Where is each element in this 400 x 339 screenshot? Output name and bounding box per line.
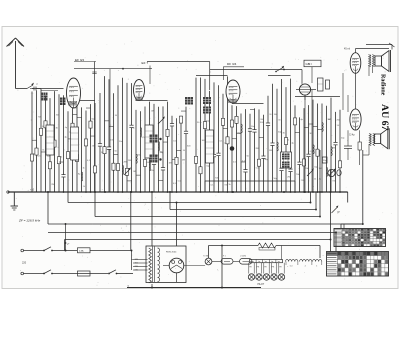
wire output stage (328, 98, 335, 192)
label DF 3/4 (223, 62, 244, 80)
wire IF stage a (159, 107, 164, 192)
svg-text:4: 4 (305, 266, 306, 268)
wire AF stage (274, 89, 283, 192)
svg-text:1M: 1M (151, 110, 154, 112)
lamp scale (203, 255, 212, 265)
svg-text:25k: 25k (301, 180, 304, 182)
wire IF stage b (170, 116, 177, 193)
output transformer T2 (369, 55, 375, 67)
wire riser (176, 203, 178, 247)
wire RF input stage (30, 92, 37, 192)
wire RF input stage (56, 94, 63, 192)
wire IF stage a (163, 102, 172, 193)
wire line 6 (65, 170, 331, 252)
IFT winding (150, 135, 158, 143)
wire riser (130, 192, 132, 251)
wire IF stage a (151, 104, 159, 192)
wire osc feeder (109, 69, 111, 192)
fuse holder (221, 256, 233, 265)
svg-text:5k: 5k (42, 150, 44, 152)
scan speckle texture (16, 40, 392, 286)
wire IF stage c (216, 85, 223, 193)
wire antenna feed (16, 83, 35, 89)
svg-text:2M: 2M (51, 184, 54, 186)
heater winding 5V (313, 260, 322, 268)
svg-text:F 1: F 1 (223, 256, 226, 258)
wire speaker2 stub (363, 145, 369, 156)
wire RF input stage (59, 95, 68, 193)
svg-text:1M: 1M (169, 163, 172, 165)
wire IF stage a (143, 107, 150, 192)
wire AF stage (266, 96, 272, 192)
wire mixer stage (68, 106, 78, 192)
wire osc stage (105, 79, 114, 192)
table tube data (327, 252, 389, 277)
wire output stage (304, 105, 313, 193)
IFT winding (203, 107, 211, 114)
wire lamp row (184, 261, 252, 265)
svg-text:45 ml: 45 ml (344, 48, 350, 51)
svg-text:2M: 2M (287, 177, 290, 179)
resistor out (358, 130, 361, 165)
potentiometer volume (328, 168, 341, 176)
svg-text:2M: 2M (182, 159, 185, 161)
wire IF stage a (136, 111, 145, 193)
IFT winding (282, 154, 290, 160)
wire stage top rail (68, 100, 95, 102)
IFT winding (150, 155, 158, 163)
magic eye V4 (299, 84, 310, 100)
wire det stage (259, 115, 269, 192)
table voltages (334, 229, 386, 247)
fuse F2 (78, 271, 91, 276)
svg-text:1M: 1M (133, 171, 136, 173)
svg-text:1k: 1k (83, 186, 85, 188)
heater winding 4V (300, 260, 312, 268)
svg-text:EF 7: EF 7 (142, 61, 149, 65)
label EF 7 and IF box (142, 61, 210, 90)
IFT winding (185, 97, 193, 105)
wire mixer stage (73, 105, 82, 192)
wire osc stage (103, 76, 106, 192)
rectifier tube V7 (163, 258, 184, 282)
wire riser (221, 246, 223, 288)
svg-text:220: 220 (22, 262, 27, 265)
speaker SP2 (375, 128, 390, 149)
wire output stage (301, 108, 310, 193)
wire mixer stage (77, 107, 86, 192)
svg-text:4μ: 4μ (319, 179, 321, 181)
wire det stage (241, 109, 250, 192)
switch S1 (43, 247, 53, 252)
IFT winding (282, 162, 290, 168)
heater winding 6.3V (286, 260, 298, 268)
wire output stage (332, 112, 341, 192)
wire AF stage (284, 87, 290, 192)
wire riser (65, 224, 71, 251)
wire speaker1 down (369, 66, 373, 76)
resistor grid (326, 80, 330, 89)
wire RF input stage (46, 98, 55, 192)
svg-text:70k: 70k (332, 181, 335, 183)
dial lamps (248, 246, 284, 281)
wire ground bus (7, 188, 348, 193)
switch S3 (108, 270, 117, 275)
wire IF stage c (194, 78, 200, 192)
wire mains line A (21, 249, 131, 252)
wire det stage (232, 106, 242, 192)
wire output stage (337, 110, 346, 193)
wire eye column (305, 90, 312, 192)
RF coil winding (60, 98, 66, 106)
coil grid choke (318, 78, 324, 91)
svg-text:DF 3/4: DF 3/4 (227, 62, 237, 66)
svg-text:→ +10: → +10 (27, 188, 35, 191)
cathode smudge V2 (135, 97, 143, 101)
wire osc stage (122, 78, 127, 193)
wire output stage (295, 117, 304, 192)
wire mains line B (21, 272, 133, 275)
wire output top (356, 43, 395, 53)
fuse holder (240, 256, 253, 265)
wire IF stage a (159, 106, 166, 192)
wire top mid feeders (210, 67, 312, 84)
ground (11, 192, 19, 210)
svg-text:2M: 2M (124, 161, 127, 163)
speaker SP1 (375, 50, 391, 72)
wire bottom bus (127, 284, 261, 288)
wire stage top rail (136, 100, 168, 102)
junction (159, 138, 161, 140)
fuse F1 (78, 248, 91, 253)
output transformer T3 (369, 134, 375, 146)
wire V5-V6 link (343, 73, 356, 112)
wire RF input stage (41, 96, 51, 192)
cathode smudge V1 (68, 101, 77, 106)
wire output stage (309, 100, 318, 193)
wire osc stage (109, 93, 118, 192)
wire RF input stage (32, 90, 41, 192)
resistor mains dropper (258, 243, 276, 250)
svg-text:1M: 1M (269, 150, 272, 152)
resistor screen (322, 157, 327, 163)
wire HT line 4 (48, 150, 363, 229)
wire riser (151, 192, 153, 246)
trimmer arrow (307, 168, 314, 176)
wire IF stage c (221, 94, 228, 192)
wire osc stage (98, 93, 106, 192)
wire AVC line 2 (170, 192, 316, 210)
IFT winding (203, 97, 211, 104)
wire mixer stage (91, 103, 97, 193)
wire output stage (313, 104, 323, 193)
wire RF input stage (51, 91, 58, 192)
junction (65, 250, 67, 252)
wire riser (319, 150, 321, 217)
wire AF stage (278, 79, 285, 192)
wire IF stage b (181, 107, 191, 192)
junction (159, 158, 161, 160)
svg-text:70k: 70k (38, 116, 41, 118)
wire det stage (230, 105, 236, 193)
wire stage top rail (268, 75, 291, 77)
wire output stage (327, 106, 331, 192)
wire antenna rail (36, 84, 58, 91)
svg-text:ZF = 128,5 kHz: ZF = 128,5 kHz (18, 219, 41, 223)
capacitor antenna coupling (30, 87, 41, 91)
svg-text:2M: 2M (256, 148, 259, 150)
wire tap feed (132, 251, 134, 271)
antenna coil winding (42, 93, 48, 101)
svg-text:2M: 2M (92, 146, 95, 148)
trimmer arrow (124, 167, 131, 175)
wire IF stage a (145, 102, 155, 192)
magic eye wire (296, 89, 316, 91)
tube V1 EF (67, 78, 81, 108)
svg-text:EF 3/4: EF 3/4 (75, 58, 84, 62)
svg-text:2M: 2M (128, 160, 131, 162)
svg-text:6,3: 6,3 (290, 266, 293, 268)
wire osc stage (127, 83, 136, 193)
capacitor electrolytic (230, 146, 235, 151)
wire det stage (237, 114, 246, 192)
svg-text:Radione: Radione (380, 74, 386, 96)
wire chassis segment (205, 181, 295, 192)
svg-text:5: 5 (316, 266, 317, 268)
tube V5 AL4 output top (350, 53, 361, 74)
svg-text:1M: 1M (332, 148, 335, 150)
svg-text:0,3A: 0,3A (79, 250, 84, 253)
wire stage top rail (196, 75, 228, 77)
coil L1 (46, 125, 54, 155)
wire feedback line 3 (95, 192, 320, 217)
svg-text:10n: 10n (173, 141, 176, 143)
wire heater line (209, 246, 321, 259)
svg-text:Cl 4ρ: Cl 4ρ (349, 134, 355, 137)
wire AVC line 1 (68, 192, 311, 203)
svg-text:an: an (36, 84, 38, 86)
IF transformer IFT2 (281, 152, 292, 168)
coil L3 (145, 125, 153, 158)
wire IF stage b (177, 116, 186, 192)
wire IF stage c (199, 78, 206, 193)
switch wave change (275, 66, 284, 73)
svg-text:4μ: 4μ (65, 127, 67, 129)
wire mixer stage (86, 104, 96, 193)
svg-text:AU 67: AU 67 (379, 104, 390, 130)
wire IF stage c (223, 76, 232, 193)
coil L2 (71, 127, 79, 160)
junction dots (47, 191, 364, 288)
label EF 3/4 (74, 58, 96, 62)
svg-text:TO 8A: TO 8A (203, 255, 209, 258)
wire IF stage c (203, 79, 210, 192)
cathode smudge V3 (228, 99, 237, 103)
tube V6 AL4 output (350, 109, 361, 130)
wire table feed (341, 224, 363, 229)
wire AF stage (269, 84, 278, 193)
coil L4 (206, 130, 214, 163)
wire det stage (248, 114, 256, 193)
wire IF stage c (205, 91, 214, 192)
wire top left feeders (74, 62, 152, 193)
wire stage top rail (232, 103, 264, 105)
wire RF input stage (38, 89, 47, 192)
wire mixer stage (65, 111, 74, 192)
wire osc stage (114, 85, 124, 193)
switch S2 (43, 270, 53, 275)
lamp terminal strip (250, 260, 283, 263)
wire IF stage b (172, 118, 178, 193)
wire osc stage (125, 83, 131, 192)
wire riser (347, 192, 349, 203)
wire stage top rail (295, 96, 340, 98)
antenna (7, 38, 25, 89)
svg-text:GBl /: GBl / (306, 62, 313, 66)
wire AF stage (287, 79, 294, 193)
capacitor out (344, 130, 352, 160)
wire mixer stage (83, 110, 91, 192)
wire output stage (318, 103, 328, 192)
svg-text:70k: 70k (224, 184, 227, 186)
svg-text:P: P (338, 211, 340, 215)
svg-text:U 2094: U 2094 (240, 256, 246, 258)
label GBl box (304, 60, 321, 66)
wire HT line 5 (48, 233, 336, 253)
tube V3 DF (226, 80, 240, 103)
wire IF stage c (210, 82, 220, 192)
potentiometer P (332, 205, 340, 214)
trimmer arrow (158, 116, 165, 124)
svg-text:1M: 1M (328, 119, 331, 121)
wire stage top rail (32, 88, 64, 90)
wire output stage (293, 105, 300, 192)
wire det stage (256, 109, 265, 192)
wire IF stage a (133, 110, 142, 192)
svg-text:RGN 2004: RGN 2004 (166, 252, 177, 254)
transformer T1 (power) (133, 246, 186, 283)
wire det stage (250, 108, 259, 192)
tube V2 EF (134, 80, 145, 101)
